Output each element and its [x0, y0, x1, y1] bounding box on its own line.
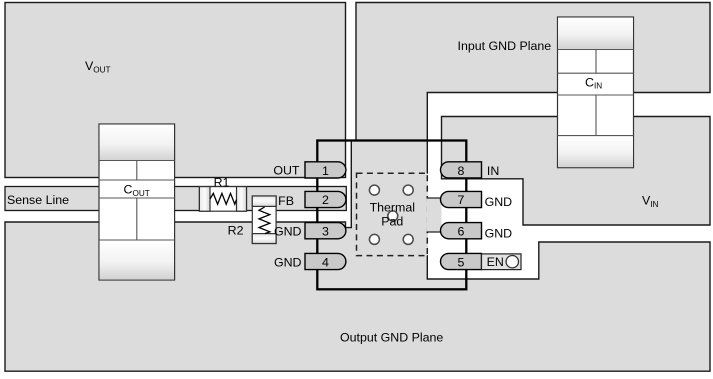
pin 2 [305, 191, 346, 207]
pin 5 [441, 253, 482, 269]
svg-text:OUT: OUT [273, 164, 300, 178]
via bottom-left [369, 234, 379, 244]
svg-text:8: 8 [458, 164, 465, 178]
EN via box [482, 254, 522, 270]
pin 4 [305, 253, 346, 269]
V_OUT plane [5, 3, 346, 178]
resistor R1 [199, 187, 246, 212]
pin 3 [305, 223, 346, 239]
white clearance mask right of thermal pad [427, 174, 429, 255]
svg-text:FB: FB [278, 194, 294, 208]
svg-text:Thermal: Thermal [370, 201, 415, 215]
pin 8 [441, 162, 482, 178]
svg-text:GND: GND [274, 255, 302, 269]
via bottom-right [403, 234, 413, 244]
svg-text:3: 3 [322, 225, 329, 239]
svg-text:5: 5 [458, 256, 465, 270]
svg-text:GND: GND [485, 226, 513, 240]
IC U1 outline [317, 141, 466, 290]
pin 7 [441, 191, 482, 207]
via middle [388, 211, 398, 221]
via top-left [369, 185, 379, 195]
svg-text:EN: EN [487, 255, 504, 269]
svg-text:Pad: Pad [381, 215, 403, 229]
svg-text:6: 6 [458, 225, 465, 239]
pin 6 [441, 223, 482, 239]
svg-text:GND: GND [485, 195, 513, 209]
svg-text:1: 1 [322, 164, 329, 178]
svg-text:Sense Line: Sense Line [7, 193, 69, 207]
svg-text:Input GND Plane: Input GND Plane [458, 39, 552, 53]
svg-text:R2: R2 [228, 223, 244, 237]
capacitor CIN [558, 17, 634, 168]
EN via [506, 256, 518, 268]
sense line / FB net band [5, 187, 346, 211]
svg-text:GND: GND [274, 225, 302, 239]
thermal pad GND bridge to pins 6-7 [427, 198, 442, 232]
pin 1 [305, 162, 346, 178]
resistor R2 [252, 196, 276, 244]
svg-text:IN: IN [487, 164, 499, 178]
svg-text:4: 4 [322, 256, 329, 270]
thermal pad [357, 173, 428, 255]
via top-right [403, 185, 413, 195]
svg-text:R1: R1 [214, 175, 230, 189]
svg-text:Output GND Plane: Output GND Plane [340, 330, 443, 344]
svg-text:7: 7 [458, 193, 465, 207]
V_IN plane [442, 117, 711, 226]
capacitor COUT [99, 124, 175, 280]
svg-text:2: 2 [322, 193, 329, 207]
